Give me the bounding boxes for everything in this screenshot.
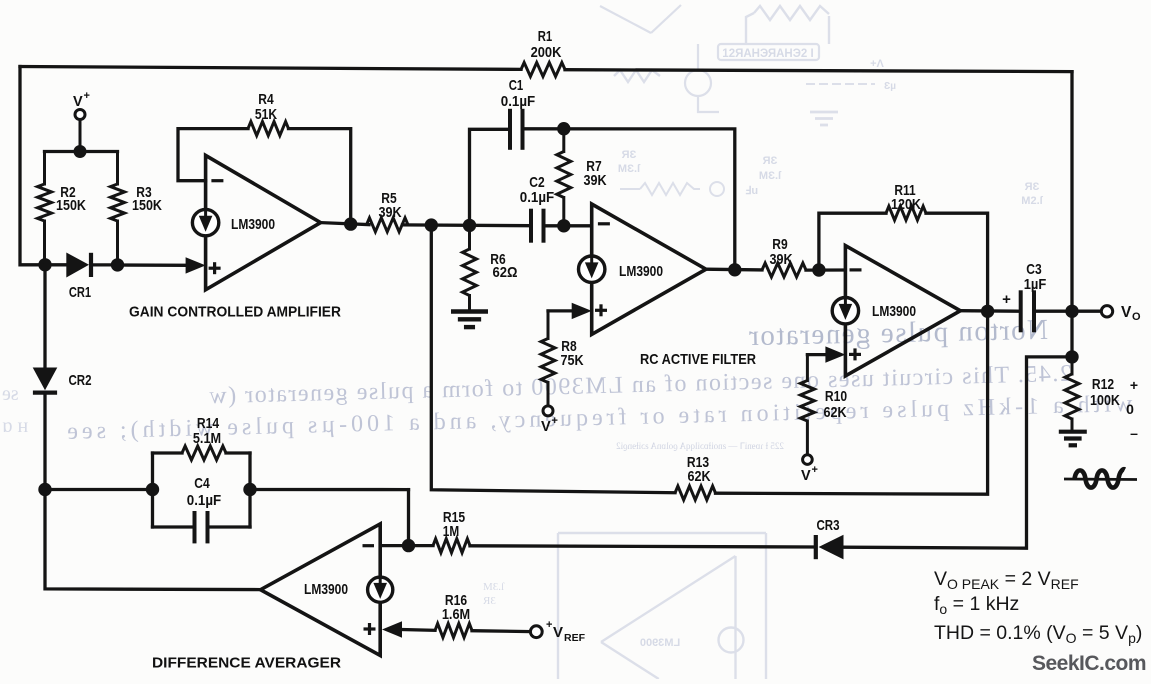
op2 minus sign [598, 222, 610, 225]
op4 plus sign [364, 623, 376, 635]
op3 minus sign [850, 268, 862, 271]
node op1 output junction [344, 217, 357, 230]
resistor R7 [557, 129, 571, 226]
wire R13 right [716, 311, 988, 494]
node op3 output junction [981, 305, 994, 318]
node left rail junction [38, 483, 51, 496]
svg-text:62Ω: 62Ω [493, 264, 518, 281]
wire rail to R14 box [45, 488, 153, 491]
bleed-through faint marks row [620, 81, 896, 197]
wire top feedback [20, 67, 1072, 72]
svg-text:225 ƚ ɿɒɘniꞀ — ƨnoiƚɒɔilqqA ϱo: 225 ƚ ɿɒɘniꞀ — ƨnoiƚɒɔilqqA ϱolɒnA ƨɔiƚɘ… [616, 441, 784, 451]
wire R13 left vertical [431, 225, 675, 493]
wire op4 minus riser [407, 490, 410, 546]
svg-text:0.1µF: 0.1µF [520, 189, 554, 206]
label annotation line 3 [934, 622, 1142, 646]
svg-text:+: + [1130, 377, 1138, 393]
wire R2R3 top bar [45, 150, 118, 153]
resistor R1 [521, 63, 565, 77]
svg-text:+: + [546, 619, 552, 631]
op-amp U3 [845, 246, 960, 376]
label R16 [442, 592, 470, 623]
op2 current source [579, 256, 605, 282]
svg-text:39K: 39K [583, 172, 606, 189]
label CR1 [69, 284, 91, 301]
svg-text:–: – [1130, 425, 1138, 441]
label R12 swing marks [1126, 377, 1138, 441]
resistor R6 [463, 225, 477, 309]
resistor R3 [111, 152, 125, 265]
op4 current source [368, 577, 393, 602]
svg-text:39K: 39K [378, 204, 401, 221]
wire op3 output [960, 309, 1019, 313]
wire rail to op4 output [45, 490, 261, 590]
waveform symbol [1064, 469, 1137, 487]
wire op1 feedback [178, 129, 351, 224]
bleed-through ground [810, 112, 838, 125]
svg-text:V: V [1121, 304, 1132, 321]
bleed-through caption [616, 441, 784, 451]
resistor R9 [762, 263, 806, 277]
svg-text:MƐ.ſ: MƐ.ſ [759, 170, 782, 182]
svg-text:1M: 1M [443, 523, 459, 540]
wire op2 output [706, 268, 762, 272]
label V+ R10 [801, 464, 818, 484]
label CR3 [816, 517, 839, 534]
svg-text:fo = 1 kHz: fo = 1 kHz [934, 593, 1019, 617]
resistor R14 box [153, 453, 251, 527]
node CR1 anode junction [38, 258, 51, 271]
label R11 [891, 182, 921, 213]
label C2 [520, 174, 554, 206]
svg-text:62K: 62K [687, 468, 710, 485]
svg-text:0.1µF: 0.1µF [187, 492, 221, 509]
svg-text:Ɛµ: Ɛµ [884, 81, 896, 92]
node C1 branch junction [463, 219, 476, 232]
label Vref [546, 619, 586, 644]
wire C1 to op2 output [525, 129, 735, 270]
svg-text:R1: R1 [538, 28, 553, 45]
label R15 [443, 509, 465, 540]
resistor R15 [433, 539, 470, 553]
svg-text:LM3900: LM3900 [304, 581, 348, 598]
label LM3900 op1 [231, 216, 275, 233]
label R2 [56, 184, 86, 214]
svg-text:GAIN CONTROLLED AMPLIFIER: GAIN CONTROLLED AMPLIFIER [129, 304, 341, 321]
svg-text:CR3: CR3 [816, 517, 839, 534]
label annotation line 1 [934, 568, 1079, 592]
input Vref terminal [530, 626, 542, 638]
resistor R10 [800, 355, 814, 455]
svg-text:LM3900: LM3900 [640, 637, 680, 649]
power V+ terminal R10 [803, 455, 813, 465]
svg-text:SeekIC.com: SeekIC.com [1032, 652, 1146, 675]
label LM3900 op3 [872, 303, 916, 320]
node C2 R7 junction [557, 219, 570, 232]
svg-text:C1: C1 [509, 77, 524, 94]
wire left vertical [20, 67, 45, 265]
svg-text:120K: 120K [891, 196, 921, 213]
node Vo junction [1065, 305, 1078, 318]
wire C2 to op2 [545, 224, 592, 227]
bleed-through heading [747, 314, 1048, 352]
resistor R14 [182, 446, 226, 460]
resistor R5 [367, 218, 409, 232]
svg-text:150K: 150K [56, 197, 86, 214]
label rc active filter [640, 351, 756, 368]
wire op3 plus input [807, 346, 845, 362]
node CR1 cathode junction [111, 258, 124, 271]
label R3 [132, 184, 162, 214]
svg-text:1µF: 1µF [1024, 276, 1047, 293]
svg-text:ЯƐ: ЯƐ [622, 149, 637, 161]
svg-text:R12: R12 [1092, 376, 1114, 393]
node R14 box right junction [243, 483, 256, 496]
svg-text:CR2: CR2 [68, 372, 91, 389]
op-amp U2 RC active filter [592, 204, 706, 334]
wire C1 branch [470, 129, 509, 225]
svg-text:200K: 200K [531, 44, 562, 61]
resistor R4 [248, 122, 289, 136]
op3 plus sign [849, 348, 861, 360]
label R8 [560, 338, 583, 369]
op1 current source [192, 209, 218, 235]
node R12 junction [1065, 350, 1078, 363]
svg-text:+: + [84, 90, 90, 102]
node R14 box left junction [146, 483, 159, 496]
bleed-through op-amp top [600, 5, 719, 112]
bleed-through body line 2 [63, 391, 1133, 445]
capacitor C1 [510, 109, 523, 150]
svg-text:75K: 75K [560, 352, 583, 369]
wire R11 feedback [819, 213, 988, 311]
wire C3 to output [1036, 310, 1101, 313]
label R14 [193, 415, 221, 447]
svg-text:12ЯAHЭЯAHЭ2 I: 12ЯAHЭЯAHЭ2 I [722, 48, 813, 60]
svg-text:Ⅎu: Ⅎu [745, 185, 758, 197]
svg-text:39K: 39K [769, 251, 792, 268]
svg-text:LM3900: LM3900 [231, 216, 275, 233]
bleed-through top resistor [614, 6, 829, 82]
left rail upper [43, 265, 46, 369]
op2 plus sign [595, 304, 607, 316]
bleed-through faint labels [618, 58, 1044, 207]
svg-text:ɒ ʜ: ɒ ʜ [2, 415, 28, 437]
svg-text:M2.ſ: M2.ſ [1021, 195, 1043, 207]
capacitor C3 [1021, 290, 1034, 332]
label Vo [1121, 304, 1141, 323]
svg-text:REF: REF [564, 632, 586, 644]
resistor R12 [1065, 357, 1079, 430]
svg-text:0.1µF: 0.1µF [501, 93, 535, 110]
svg-text:1.6M: 1.6M [442, 606, 470, 623]
label C3 plus [1002, 291, 1011, 308]
resistor R13 [675, 486, 716, 500]
wire to op1 plus input [118, 257, 206, 273]
wire box to op4 riser [250, 488, 409, 491]
wire op4 plus input [382, 621, 435, 637]
node op3 minus junction [812, 263, 825, 276]
label V+ R8 [541, 415, 558, 435]
op1 minus sign [211, 179, 223, 182]
op4 minus sign [363, 544, 375, 547]
wire R9 to op3 [806, 268, 845, 271]
op1 plus sign [209, 262, 221, 274]
svg-text:LM3900: LM3900 [872, 303, 916, 320]
capacitor C2 [531, 209, 544, 243]
ground R12 [1059, 432, 1087, 446]
bleed-through left fragments [2, 383, 505, 607]
svg-text:62K: 62K [823, 404, 846, 421]
label CR2 [68, 372, 91, 389]
node op2 output junction [728, 263, 741, 276]
ground R6 [451, 312, 488, 328]
label LM3900 op2 [619, 263, 663, 280]
op3 current source [832, 298, 858, 324]
bleed-through box [718, 44, 819, 60]
label R1 [531, 28, 562, 61]
svg-text:5.1M: 5.1M [193, 430, 221, 447]
resistor R11 [886, 206, 926, 220]
watermark SeekIC [1032, 652, 1146, 675]
bleed-through body line 1 [208, 361, 1073, 410]
diode CR1 [45, 253, 118, 278]
label R6 [490, 251, 517, 281]
label R5 [378, 190, 401, 221]
op-amp U1 gain controlled amplifier [206, 155, 321, 289]
svg-text:ЯƐ: ЯƐ [763, 155, 778, 167]
diode CR3 [470, 535, 844, 560]
label R7 [583, 158, 606, 189]
resistor R16 [435, 624, 472, 638]
svg-text:O: O [1132, 311, 1141, 323]
label R10 [823, 388, 847, 421]
label LM3900 op4 [304, 581, 348, 598]
label C4 [187, 475, 221, 509]
svg-text:V: V [553, 624, 563, 641]
svg-text:150K: 150K [132, 197, 162, 214]
svg-text:DIFFERENCE AVERAGER: DIFFERENCE AVERAGER [152, 655, 341, 672]
label R13 [687, 454, 711, 485]
svg-text:51K: 51K [255, 106, 277, 123]
label R4 [255, 91, 277, 123]
label gain controlled amplifier [129, 304, 341, 321]
label C3 [1024, 261, 1047, 293]
svg-text:C4: C4 [194, 475, 210, 492]
power V+ terminal R8 [543, 406, 553, 416]
node C1 R7 junction [557, 122, 570, 135]
wire op1 out to C2 [403, 223, 530, 227]
node op4 minus junction [402, 539, 415, 552]
svg-text:THD = 0.1% (VO = 5 Vp): THD = 0.1% (VO = 5 Vp) [934, 622, 1142, 646]
resistor R8 [541, 311, 555, 406]
svg-text:MƐ.ſ: MƐ.ſ [483, 581, 505, 593]
svg-text:CR1: CR1 [69, 284, 91, 301]
label R9 [769, 236, 792, 268]
bleed-through bottom figure [558, 533, 766, 679]
node R13 top junction [425, 218, 438, 231]
svg-text:ɘƨ: ɘƨ [2, 383, 19, 405]
wire R15 to op4 minus [380, 544, 433, 547]
label difference averager [152, 655, 341, 672]
label V+ A [73, 90, 90, 110]
wire R12 node to CR3 [844, 357, 1073, 548]
output Vo terminal [1101, 306, 1112, 317]
svg-text:R10: R10 [825, 388, 847, 405]
svg-text:+: + [812, 464, 818, 476]
wire Vo to R12 [1070, 311, 1073, 357]
svg-text:V: V [73, 94, 83, 110]
resistor R2 [38, 152, 52, 265]
svg-text:RC ACTIVE FILTER: RC ACTIVE FILTER [640, 351, 756, 368]
svg-text:V: V [541, 419, 551, 435]
label R12 [1090, 376, 1120, 409]
capacitor C4 [195, 511, 208, 543]
wire op2 plus input [548, 303, 592, 319]
svg-text:0: 0 [1126, 401, 1134, 417]
op-amp U4 difference averager [261, 524, 381, 656]
svg-text:+: + [1002, 291, 1011, 308]
svg-text:MƐ.ſ: MƐ.ſ [618, 163, 641, 175]
node R2 R3 top junction [74, 145, 87, 158]
label annotation line 2 [934, 593, 1019, 617]
svg-text:ЯƐ: ЯƐ [483, 595, 496, 607]
label C1 [501, 77, 535, 110]
power V+ terminal A [75, 110, 85, 152]
wire right feedback vertical [1070, 72, 1073, 312]
svg-text:+Λ: +Λ [870, 58, 884, 70]
svg-text:LM3900: LM3900 [619, 263, 663, 280]
svg-text:V: V [801, 468, 811, 484]
wire R16 to Vref [472, 629, 530, 633]
diode CR2 [33, 368, 58, 490]
wire op1 output [321, 223, 369, 225]
svg-text:ЯƐ: ЯƐ [1025, 181, 1040, 193]
svg-text:+: + [552, 415, 558, 427]
svg-text:100K: 100K [1090, 392, 1120, 409]
